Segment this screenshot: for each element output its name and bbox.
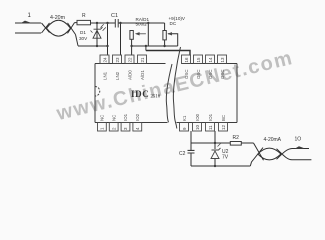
wire twist crossing 1	[42, 23, 50, 33]
arrow AD2	[167, 32, 172, 35]
zener U2	[211, 144, 221, 159]
wire pin21 drop	[145, 46, 147, 51]
svg-text:15: 15	[196, 57, 201, 63]
svg-text:10: 10	[195, 124, 200, 130]
svg-text:C1: C1	[111, 13, 118, 19]
svg-text:A/D0: A/D0	[128, 70, 133, 80]
wire input pair top	[15, 22, 41, 24]
pin boxes bottom-left 1 2 3 4	[98, 123, 142, 132]
IC break squiggles	[166, 47, 180, 129]
svg-text:OSC: OSC	[220, 69, 225, 79]
svg-text:4-20mA: 4-20mA	[264, 137, 282, 143]
svg-text:1O: 1O	[295, 137, 302, 143]
arrow output	[296, 147, 304, 149]
wire zener to rail	[214, 159, 216, 166]
svg-text:500Ω: 500Ω	[136, 22, 148, 27]
wire vertical pin23	[120, 23, 122, 56]
pin labels bottom-left	[100, 113, 140, 121]
resistor R	[77, 20, 91, 24]
wire twist lens left	[47, 20, 71, 36]
svg-text:IDC: IDC	[131, 89, 149, 99]
wire pin12 zener branch	[214, 131, 216, 149]
pin labels bottom-right	[182, 113, 226, 121]
pin boxes top-left 24 23 22 21	[100, 55, 147, 64]
wire rail M	[132, 45, 178, 47]
svg-text:21: 21	[140, 57, 145, 63]
wire to pin16	[146, 51, 190, 56]
IC notch	[95, 87, 100, 97]
wire to resistor R	[75, 22, 78, 24]
svg-text:14: 14	[208, 57, 213, 63]
svg-text:12: 12	[221, 124, 226, 130]
svg-text:11: 11	[208, 125, 213, 130]
svg-text:LN2: LN2	[115, 71, 120, 80]
svg-text:R: R	[82, 13, 86, 19]
wire RA/D2 bottom loop	[165, 34, 178, 46]
resistor RA/D1	[130, 31, 133, 40]
svg-text:OSC: OSC	[196, 69, 201, 79]
wire vertical pin24	[107, 23, 109, 56]
wire top rail after R	[91, 22, 165, 24]
junction dots top-left	[96, 22, 166, 47]
wire input pair bottom	[15, 32, 41, 34]
wire vertical D1	[96, 23, 98, 46]
pin boxes top-right 16 15 14 13	[182, 55, 227, 64]
resistor R2	[230, 142, 241, 146]
arrow AD1	[135, 32, 146, 35]
pin labels top-right	[184, 69, 225, 79]
svg-text:R2: R2	[233, 135, 240, 141]
svg-text:7V: 7V	[222, 155, 229, 161]
svg-text:IO1: IO1	[208, 113, 213, 121]
svg-text:IO1: IO1	[123, 113, 128, 121]
svg-text:2516: 2516	[151, 95, 161, 100]
svg-text:16: 16	[184, 57, 189, 63]
svg-text:13: 13	[220, 57, 225, 63]
capacitor C2	[188, 150, 195, 153]
wire pin10 down	[190, 131, 192, 166]
zener D1	[91, 24, 106, 38]
wire twist crossing 2	[68, 23, 76, 35]
arrow input	[22, 21, 30, 23]
svg-text:NC: NC	[111, 115, 116, 121]
svg-text:D1: D1	[80, 30, 86, 35]
twist crossing 2	[277, 149, 312, 160]
svg-text:IO0: IO0	[195, 113, 200, 121]
wire RA/D2 top link	[164, 23, 166, 31]
svg-text:23: 23	[115, 57, 120, 63]
wire mid vertical	[147, 23, 149, 46]
twist crossing 1	[250, 143, 263, 166]
wire bottom rail left	[78, 45, 108, 47]
wire out top rail	[191, 142, 254, 144]
svg-text:4-20m: 4-20m	[50, 15, 66, 21]
pin boxes bottom-right 9 10 11 12	[180, 123, 228, 132]
twist lens right	[258, 148, 281, 160]
svg-text:24: 24	[103, 57, 108, 63]
svg-text:NC: NC	[100, 115, 105, 121]
watermark www.ChinaECNet.com	[54, 47, 296, 125]
svg-text:IO2: IO2	[135, 113, 140, 121]
resistor RA/D2	[163, 31, 166, 40]
svg-text:K1: K1	[182, 115, 187, 121]
svg-text:LN1: LN1	[103, 71, 108, 80]
junction dots bottom-right	[214, 142, 216, 167]
capacitor C1	[115, 19, 118, 28]
svg-text:22: 22	[128, 57, 133, 63]
svg-text:C2: C2	[179, 151, 186, 157]
wire RA/D1 bottom	[131, 39, 133, 46]
wire pin22 drop	[131, 46, 133, 56]
op IC IDC outline	[95, 64, 237, 123]
svg-text:30V: 30V	[79, 36, 88, 41]
svg-text:OSC: OSC	[208, 69, 213, 79]
svg-text:A/D1: A/D1	[140, 70, 145, 80]
svg-text:BC: BC	[221, 115, 226, 121]
pin labels top-left	[103, 70, 146, 80]
wire out bottom rail	[191, 165, 250, 167]
svg-text:OSC: OSC	[184, 69, 189, 79]
svg-text:DC: DC	[170, 21, 177, 26]
wire return slope	[76, 35, 79, 46]
wire output twisted pair	[250, 143, 311, 166]
